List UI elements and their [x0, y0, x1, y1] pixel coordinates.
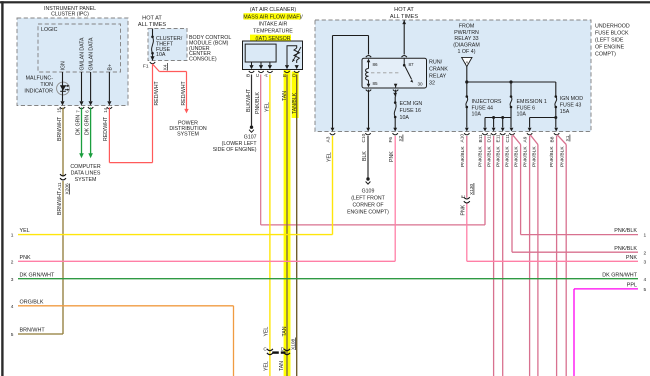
svg-text:SYSTEM: SYSTEM [177, 131, 199, 137]
svg-text:YEL: YEL [264, 361, 270, 371]
wire bus to fuse 44 [466, 82, 468, 96]
svg-text:DATA LINES: DATA LINES [71, 171, 101, 177]
svg-text:YEL: YEL [265, 102, 271, 112]
junction dot fuse 6 [509, 80, 512, 83]
svg-text:FUSE 43: FUSE 43 [560, 103, 582, 109]
svg-text:DK GRN/WHT: DK GRN/WHT [602, 272, 637, 278]
svg-text:3: 3 [11, 277, 14, 283]
svg-text:PPL: PPL [627, 283, 637, 289]
svg-text:15A: 15A [560, 109, 570, 115]
MAF sensor box [243, 41, 303, 70]
fuse block pin E11 [500, 133, 505, 135]
MAF inner module [245, 44, 276, 62]
svg-text:1: 1 [644, 233, 647, 239]
svg-text:PNK/BLK: PNK/BLK [560, 146, 566, 167]
svg-text:10A: 10A [472, 112, 482, 118]
wire PNK/BLK from pin C11 diagonal [513, 135, 521, 145]
circuit 3 DK GRN/WHT wire [18, 278, 638, 280]
svg-text:PNK/BLK: PNK/BLK [614, 246, 637, 252]
svg-text:B8: B8 [549, 136, 555, 142]
connector X206 [60, 174, 66, 176]
run/crank relay 32 box [362, 58, 427, 88]
svg-text:PNK: PNK [626, 255, 637, 261]
svg-text:4: 4 [644, 277, 647, 283]
svg-text:YEL: YEL [326, 152, 332, 162]
svg-text:RED/WHT: RED/WHT [154, 80, 160, 105]
relay contact 87 [403, 58, 413, 82]
svg-text:CONSOLE): CONSOLE) [189, 56, 217, 62]
relay 86 socket [366, 56, 371, 58]
fuse block pin B11 [482, 133, 487, 135]
svg-text:15: 15 [56, 107, 61, 112]
fuse block pin C11 [509, 133, 514, 135]
svg-text:DK GRN: DK GRN [84, 115, 90, 135]
wire PNK/BLK from pin A9 straight [529, 136, 531, 376]
MAF pin D [295, 65, 299, 69]
IPC pin 14 [107, 101, 111, 105]
yellow highlight TAN/BLK label [292, 72, 299, 119]
svg-text:YEL: YEL [264, 327, 270, 337]
svg-text:HOT AT: HOT AT [394, 7, 414, 13]
svg-text:COMPT): COMPT) [595, 52, 616, 58]
junction dot fuse 43 bus [554, 116, 557, 119]
svg-text:RELAY 33: RELAY 33 [454, 36, 478, 42]
wire PNK/BLK from pin B8 straight [556, 136, 558, 376]
feed bus [467, 81, 556, 83]
wire drop to pin D11 [493, 118, 495, 128]
IPC pin 6 [89, 101, 93, 105]
wire BRN/WHT from IPC pin 15 [62, 108, 64, 177]
svg-text:E: E [460, 195, 466, 198]
fuse block pin C10 [365, 133, 370, 135]
cluster/theft fuse 10A [151, 29, 183, 61]
wire RED/WHT branch to power dist [153, 64, 160, 72]
emission lower bus [485, 117, 511, 119]
svg-text:GMLAN DATA: GMLAN DATA [89, 37, 95, 70]
wire fuse 6 to lower bus [510, 107, 512, 118]
svg-text:BLK: BLK [362, 151, 368, 161]
wire DK GRN from IPC pin 6 [90, 108, 92, 154]
arrow to power distribution [184, 109, 188, 114]
wire DK GRN from IPC pin 7 [81, 108, 83, 154]
svg-text:PNK/BLK: PNK/BLK [255, 92, 261, 114]
svg-text:14: 14 [103, 107, 108, 112]
ground G107 [250, 126, 253, 129]
circuit 1 right PNK/BLK wire [521, 234, 638, 236]
svg-text:3: 3 [644, 259, 647, 265]
X108 terminal bars [272, 351, 279, 353]
svg-text:2: 2 [644, 250, 647, 256]
wire PNK from pin F6 [394, 136, 396, 261]
svg-text:RED/WHT: RED/WHT [103, 116, 109, 141]
IPC pin 15 [60, 101, 64, 105]
svg-text:CRANK: CRANK [429, 67, 448, 73]
svg-text:INDICATOR: INDICATOR [24, 88, 53, 94]
svg-text:EMISSION 1: EMISSION 1 [517, 99, 547, 105]
circuit 2 right PNK/BLK wire [512, 251, 638, 253]
svg-text:ALL TIMES: ALL TIMES [138, 22, 167, 28]
IPC pin 7 [79, 101, 83, 105]
svg-text:10A: 10A [156, 52, 166, 58]
svg-text:BLK/WHT: BLK/WHT [246, 88, 252, 112]
circuit 3 right PNK wire [467, 260, 638, 262]
wire GMLAN 1 inside [81, 72, 83, 101]
svg-text:30: 30 [418, 81, 424, 86]
wire B+ inside [108, 72, 110, 101]
svg-text:C: C [255, 73, 261, 77]
svg-text:INJECTORS: INJECTORS [472, 99, 502, 105]
svg-text:B: B [245, 74, 251, 77]
fuse block pin A10 [464, 133, 469, 135]
wire fuse 43 to lower bus [555, 107, 557, 118]
svg-text:SYSTEM: SYSTEM [75, 177, 97, 183]
wire BLK from pin C10 [367, 136, 369, 178]
circuit 1 left YEL wire [18, 234, 333, 236]
relay internal dashed link [371, 72, 401, 74]
svg-text:TAN/BLK: TAN/BLK [292, 92, 298, 114]
junction dot fuse 44 [465, 80, 468, 83]
ECM IGN fuse 16 [393, 97, 422, 132]
svg-text:PNK/BLK: PNK/BLK [549, 146, 555, 167]
svg-text:5: 5 [644, 287, 647, 293]
wire PNK/BLK MAF C horizontal [261, 224, 485, 226]
wire PNK below X130 [466, 204, 468, 262]
svg-text:TEMPERATURE: TEMPERATURE [253, 28, 293, 34]
svg-text:PNK/BLK: PNK/BLK [513, 146, 519, 167]
wire drop to pin E11 [502, 118, 504, 128]
wire RED/WHT F1 down [152, 64, 154, 163]
svg-text:D11: D11 [486, 134, 492, 143]
svg-text:A9: A9 [522, 136, 528, 142]
svg-text:MALFUNC-: MALFUNC- [26, 75, 54, 81]
IAT thermistor [287, 46, 301, 65]
IPC logic box [38, 24, 121, 72]
svg-text:A10: A10 [460, 134, 466, 143]
fuse block pin A9 [527, 133, 532, 135]
svg-text:FROM: FROM [459, 24, 475, 30]
svg-text:87: 87 [409, 62, 415, 67]
svg-text:86: 86 [373, 62, 379, 67]
arrow DK GRN 2 [88, 153, 93, 158]
svg-text:DK GRN: DK GRN [75, 115, 81, 135]
wire relay 85 to C10 [368, 90, 370, 128]
svg-text:CLUSTER (IPC): CLUSTER (IPC) [51, 11, 89, 17]
svg-text:BRN/WHT: BRN/WHT [57, 116, 63, 141]
wire bus to fuse 43 [555, 82, 557, 96]
svg-text:INTAKE AIR: INTAKE AIR [259, 21, 288, 27]
svg-text:FUSE 16: FUSE 16 [400, 108, 422, 114]
emission 1 fuse 6 [510, 95, 513, 98]
wire relay 30 to fuse 16 [395, 90, 397, 97]
wire drop to pin B8 [555, 118, 557, 128]
svg-text:BRN/WHT: BRN/WHT [57, 190, 63, 215]
svg-text:D: D [281, 346, 285, 352]
wire drop to pin C11 [510, 118, 512, 128]
svg-text:B+: B+ [108, 64, 114, 71]
yellow highlight band TAN wire [284, 70, 291, 376]
fuse block pin D11 [491, 133, 496, 135]
MAF pin B [249, 65, 253, 69]
wire to relay coil 86 [368, 36, 370, 55]
svg-text:C11: C11 [505, 134, 511, 143]
circuit 5 PPL wire [574, 288, 638, 290]
relay coil [366, 59, 371, 88]
svg-text:ENGINE COMPT): ENGINE COMPT) [347, 209, 389, 215]
svg-text:(LEFT SIDE: (LEFT SIDE [595, 38, 624, 44]
svg-text:(LEFT FRONT: (LEFT FRONT [351, 195, 385, 201]
svg-text:ALL TIMES: ALL TIMES [390, 14, 419, 20]
svg-text:COMPUTER: COMPUTER [70, 164, 100, 170]
wire hot feed to relay 87 [403, 20, 405, 55]
body control module box [148, 29, 187, 61]
svg-text:G107: G107 [244, 134, 257, 140]
svg-text:PNK: PNK [389, 151, 395, 162]
svg-text:G109: G109 [362, 188, 375, 194]
underhood fuse block box [315, 20, 591, 132]
wire PNK/BLK from pin B8 diagonal [557, 135, 566, 145]
svg-text:IGN MOD: IGN MOD [560, 96, 583, 102]
svg-text:PNK/BLK: PNK/BLK [495, 146, 501, 167]
fuse block pin F6 [393, 133, 398, 135]
svg-text:C10: C10 [361, 133, 367, 142]
BCM pin F1 [150, 56, 154, 60]
wire GMLAN 2 inside [90, 72, 92, 101]
svg-text:PNK/BLK: PNK/BLK [460, 146, 466, 167]
circuit 2 left PNK wire [18, 260, 395, 262]
svg-text:TAN: TAN [282, 91, 288, 101]
svg-text:E11: E11 [496, 134, 502, 143]
MAF pin stems [251, 62, 253, 65]
svg-text:TION: TION [40, 82, 53, 88]
svg-text:FUSE 6: FUSE 6 [517, 105, 536, 111]
svg-text:A: A [465, 60, 468, 65]
MAF pin E [285, 65, 289, 69]
svg-text:PNK/BLK: PNK/BLK [614, 228, 637, 234]
window frame top border [0, 1, 650, 3]
svg-text:PNK/BLK: PNK/BLK [487, 146, 493, 167]
injectors fuse 44 [466, 95, 469, 98]
window frame left border [1, 1, 3, 376]
svg-text:4: 4 [11, 304, 14, 310]
MAF pin C [259, 65, 263, 69]
relay 85 socket [366, 90, 371, 92]
svg-text:5: 5 [11, 332, 14, 338]
svg-text:DK GRN/WHT: DK GRN/WHT [20, 272, 55, 278]
svg-text:TAN: TAN [282, 326, 288, 336]
svg-text:PNK: PNK [460, 204, 466, 215]
wire PNK/BLK from pin B11 [484, 136, 486, 225]
relay pin 30 stem [394, 84, 398, 88]
svg-text:TAN: TAN [279, 361, 285, 371]
wire bus to fuse 6 [510, 82, 512, 96]
svg-text:PNK/BLK: PNK/BLK [478, 146, 484, 167]
fuse block pin B8 [554, 133, 559, 135]
svg-text:MASS AIR FLOW (MAF)/: MASS AIR FLOW (MAF)/ [243, 14, 303, 20]
wire RED/WHT from IPC pin 14 [108, 108, 110, 163]
svg-text:PNK/BLK: PNK/BLK [531, 146, 537, 167]
svg-text:ORG/BLK: ORG/BLK [20, 299, 44, 305]
svg-text:ECM IGN: ECM IGN [400, 101, 423, 107]
svg-text:RUN/: RUN/ [429, 60, 443, 66]
junction dot D11 [492, 116, 495, 119]
wire PNK/BLK from MAF C [260, 75, 262, 225]
ign mod fuse 43 [555, 95, 558, 98]
fuse block pin A3 [330, 133, 335, 135]
svg-text:LOGIC: LOGIC [41, 27, 58, 33]
svg-text:BRN/WHT: BRN/WHT [20, 328, 46, 334]
relay 87 socket [402, 56, 407, 58]
svg-text:(AT AIR CLEANER): (AT AIR CLEANER) [250, 7, 297, 13]
wire PNK/BLK from pin E11 [502, 136, 504, 376]
wire TAN/BLK from MAF D [296, 75, 298, 376]
circuit 4 left ORG/BLK wire [18, 305, 234, 307]
wire IGN lamp [62, 72, 64, 101]
svg-text:FUSE BLOCK: FUSE BLOCK [595, 31, 629, 37]
wire PNK/BLK from pin D11 [493, 136, 495, 376]
svg-text:32: 32 [429, 81, 435, 87]
wire drop to pin A9 [529, 118, 531, 128]
triangle connector A [462, 57, 472, 66]
svg-text:PNK: PNK [20, 255, 31, 261]
svg-text:OF ENGINE: OF ENGINE [595, 45, 625, 51]
svg-text:F1: F1 [143, 64, 149, 70]
wire PNK/BLK from pin C11 straight [511, 136, 513, 252]
svg-text:UNDERHOOD: UNDERHOOD [595, 24, 630, 30]
svg-text:IGN: IGN [61, 61, 67, 70]
svg-text:PNK/BLK: PNK/BLK [522, 146, 528, 167]
svg-text:10A: 10A [517, 112, 527, 118]
wire BLK/WHT from MAF B [251, 75, 253, 126]
ground G109 [366, 177, 369, 180]
svg-text:CORNER OF: CORNER OF [352, 202, 383, 208]
wire YEL from MAF A [269, 75, 271, 376]
circuit 5 left BRN/WHT wire [18, 333, 63, 335]
instrument panel cluster (IPC) box [17, 18, 128, 106]
svg-text:1: 1 [11, 233, 14, 239]
MAF pin A [268, 65, 272, 69]
malfunction indicator lamp [57, 82, 70, 95]
wire PNK/BLK from pin A9 diagonal [530, 135, 538, 145]
svg-text:(LOWER LEFT: (LOWER LEFT [222, 141, 258, 147]
svg-text:PNK/BLK: PNK/BLK [504, 146, 510, 167]
svg-text:B11: B11 [478, 134, 484, 143]
svg-text:10A: 10A [400, 115, 410, 121]
svg-text:(DIAGRAM: (DIAGRAM [453, 43, 480, 49]
svg-text:SIDE OF ENGINE): SIDE OF ENGINE) [213, 147, 257, 153]
svg-text:RED/WHT: RED/WHT [181, 80, 187, 105]
MAF sensor title [243, 7, 303, 42]
svg-text:F6: F6 [388, 137, 394, 143]
svg-text:1 OF 4): 1 OF 4) [458, 49, 476, 55]
junction dot E11 [501, 116, 504, 119]
wire RED/WHT horizontal [109, 162, 152, 164]
svg-text:FUSE 44: FUSE 44 [472, 105, 494, 111]
svg-text:A11: A11 [57, 182, 63, 191]
arrow DK GRN 1 [79, 153, 84, 158]
svg-text:GMLAN DATA: GMLAN DATA [80, 37, 86, 70]
wire drop to pin B11 [484, 118, 486, 128]
wire PNK/BLK from pin A10 [466, 136, 468, 198]
svg-text:RELAY: RELAY [429, 74, 447, 80]
svg-text:PWR/TRN: PWR/TRN [454, 30, 479, 36]
svg-text:85: 85 [373, 81, 379, 86]
wire YEL from pin A3 [332, 136, 334, 235]
svg-text:YEL: YEL [20, 228, 30, 234]
wire triangle to bus [466, 67, 468, 82]
svg-text:A3: A3 [325, 136, 331, 142]
wire fuse 44 to pin A10 [466, 107, 468, 128]
svg-text:2: 2 [11, 259, 14, 265]
svg-text:HOT AT: HOT AT [142, 15, 162, 21]
wire TAN from MAF E [286, 75, 288, 376]
ign mod lower bus [530, 117, 556, 119]
relay 30 socket [393, 90, 398, 92]
